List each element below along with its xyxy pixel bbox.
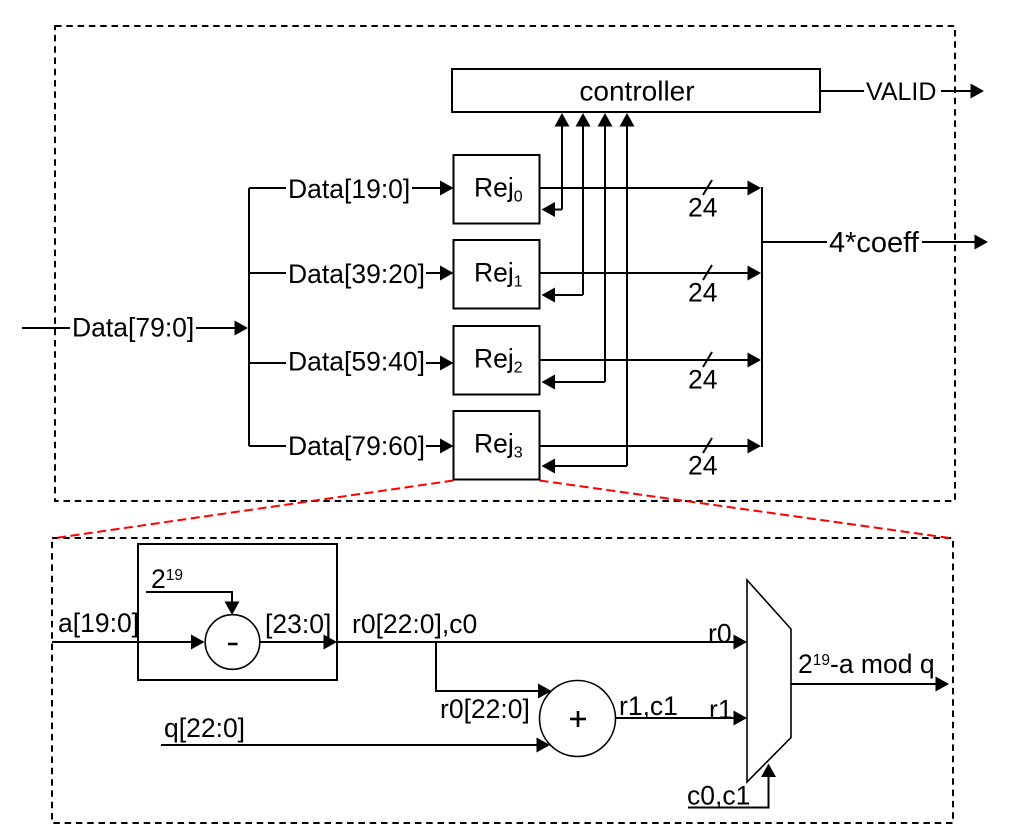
svg-text:219-a mod q: 219-a mod q [798, 649, 935, 679]
svg-text:q[22:0]: q[22:0] [164, 713, 245, 743]
svg-text:24: 24 [688, 451, 717, 481]
svg-text:Data[19:0]: Data[19:0] [288, 174, 410, 204]
svg-text:24: 24 [688, 278, 717, 308]
svg-text:24: 24 [688, 193, 717, 223]
svg-text:[23:0]: [23:0] [265, 609, 331, 639]
svg-text:c0,c1: c0,c1 [687, 781, 750, 811]
svg-text:r0[22:0],c0: r0[22:0],c0 [352, 609, 477, 639]
svg-text:Rej0: Rej0 [474, 173, 523, 206]
svg-text:Data[79:60]: Data[79:60] [288, 431, 425, 461]
svg-text:controller: controller [579, 76, 694, 107]
svg-text:r1,c1: r1,c1 [619, 691, 678, 721]
svg-text:r0: r0 [708, 619, 732, 649]
svg-text:4*coeff: 4*coeff [829, 227, 920, 259]
svg-text:Rej1: Rej1 [474, 258, 523, 291]
svg-text:Data[59:40]: Data[59:40] [288, 347, 425, 377]
svg-text:Rej3: Rej3 [474, 429, 523, 462]
svg-text:VALID: VALID [866, 78, 936, 106]
svg-text:Data[79:0]: Data[79:0] [72, 313, 194, 343]
svg-text:a[19:0]: a[19:0] [58, 608, 139, 638]
svg-text:r0[22:0]: r0[22:0] [440, 694, 530, 724]
svg-text:Rej2: Rej2 [474, 344, 523, 377]
svg-text:Data[39:20]: Data[39:20] [288, 259, 425, 289]
svg-text:r1: r1 [709, 695, 733, 725]
svg-text:24: 24 [688, 365, 717, 395]
svg-text:219: 219 [151, 564, 183, 594]
